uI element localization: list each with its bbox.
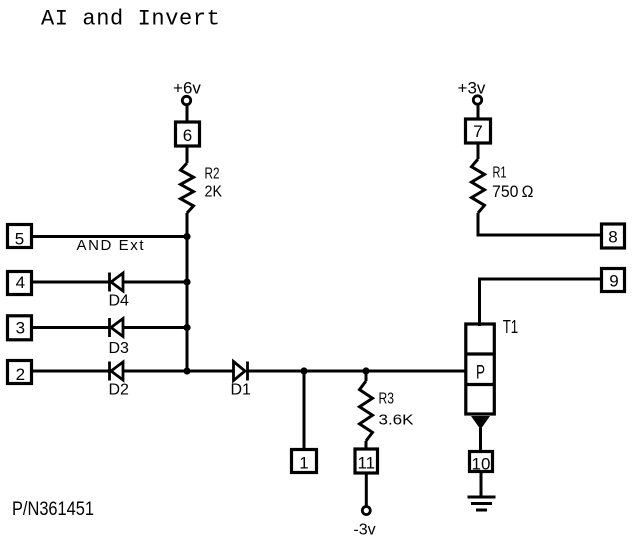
svg-text:P/N361451: P/N361451 [12, 498, 94, 520]
svg-text:AI and Invert: AI and Invert [41, 7, 220, 32]
svg-text:2K: 2K [205, 184, 223, 201]
svg-text:D3: D3 [109, 340, 130, 357]
svg-text:R1: R1 [493, 165, 507, 182]
svg-text:2: 2 [16, 365, 25, 384]
svg-text:P: P [476, 362, 485, 384]
svg-text:D4: D4 [109, 293, 130, 310]
svg-text:D2: D2 [109, 382, 130, 399]
svg-text:3.6K: 3.6K [379, 413, 414, 429]
svg-text:11: 11 [357, 454, 375, 473]
svg-text:R3: R3 [379, 391, 395, 408]
svg-text:R2: R2 [205, 166, 220, 183]
svg-text:+3v: +3v [458, 79, 486, 98]
svg-text:10: 10 [472, 455, 491, 474]
svg-text:8: 8 [608, 228, 617, 247]
svg-text:+6v: +6v [173, 79, 201, 98]
svg-text:-3v: -3v [353, 522, 375, 539]
svg-text:4: 4 [16, 273, 25, 292]
svg-text:D1: D1 [231, 382, 252, 399]
svg-text:3: 3 [16, 319, 25, 338]
svg-text:T1: T1 [503, 317, 519, 337]
svg-text:750 Ω: 750 Ω [492, 182, 534, 201]
svg-text:1: 1 [299, 454, 308, 473]
svg-text:7: 7 [473, 122, 482, 141]
svg-text:5: 5 [15, 230, 24, 249]
svg-text:9: 9 [609, 272, 618, 291]
svg-text:6: 6 [183, 126, 192, 145]
